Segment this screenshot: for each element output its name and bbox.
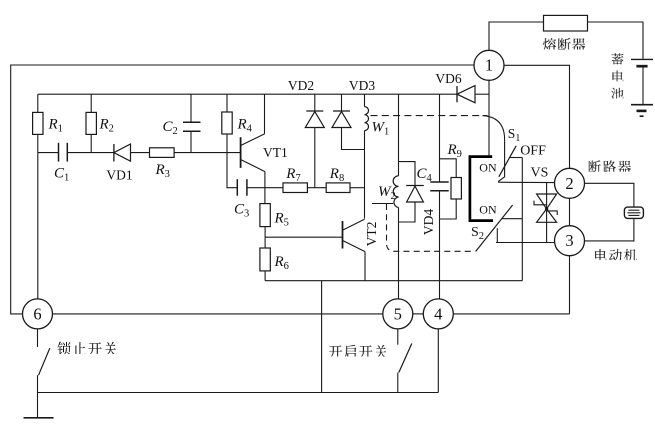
wire motor to node3 bbox=[585, 218, 634, 241]
transistor VT1 bbox=[241, 94, 265, 188]
label R7 bbox=[285, 166, 300, 184]
wire RC trigger line C1-VD1 segment bbox=[67, 152, 114, 154]
svg-text:VS: VS bbox=[531, 166, 549, 181]
label ON (S1) bbox=[479, 161, 497, 175]
node 2 bbox=[555, 168, 585, 198]
label W2 bbox=[378, 184, 396, 202]
resistor R2 bbox=[86, 94, 96, 152]
wire S1 OFF contact stub bbox=[510, 157, 523, 159]
svg-text:ON: ON bbox=[479, 161, 497, 175]
resistor R7 bbox=[283, 183, 307, 193]
inductor W1 (relay coil 1) bbox=[365, 94, 369, 218]
label VT1 bbox=[263, 145, 288, 160]
switch lock (锁止开关) bbox=[38, 329, 50, 418]
wire R4 column to C3 bbox=[227, 153, 237, 188]
wire top supply bus bbox=[38, 93, 457, 95]
wire OFF column x522 bbox=[521, 158, 523, 281]
svg-text:2: 2 bbox=[565, 174, 573, 193]
wire S1 common riser (curved) bbox=[483, 116, 505, 182]
svg-text:VD4: VD4 bbox=[421, 209, 436, 235]
label VS bbox=[531, 166, 549, 181]
resistor R9 (parallel with C4) bbox=[440, 159, 462, 219]
resistor R5 bbox=[260, 188, 270, 238]
label R9 bbox=[447, 142, 462, 160]
svg-text:VT2: VT2 bbox=[364, 222, 379, 247]
label C4 bbox=[417, 166, 433, 184]
label R3 bbox=[155, 162, 170, 180]
wire node 5 to node 4 bbox=[413, 313, 424, 315]
wire node1 right to node2 bbox=[504, 65, 570, 168]
label S2 bbox=[471, 225, 484, 242]
wire W2 armature stub bbox=[372, 203, 393, 205]
label 电动机 bbox=[595, 249, 637, 260]
wire S2 upper contact stub bbox=[502, 218, 523, 220]
label 锁止开关 bbox=[57, 341, 116, 353]
dashed relay linkage (W2 to S2) bbox=[387, 204, 476, 251]
label R4 bbox=[237, 117, 253, 135]
switch start (开启开关) bbox=[398, 329, 412, 393]
wire node2-node3 bbox=[569, 198, 571, 225]
svg-text:5: 5 bbox=[394, 304, 402, 323]
transistor VT2 bbox=[343, 219, 366, 281]
motor (starter) bbox=[624, 207, 643, 218]
node 5 bbox=[383, 299, 413, 329]
label 断路器 bbox=[589, 160, 632, 171]
battery ground bbox=[631, 105, 653, 117]
wire outer border (top edge to node 1, left edge to node 6) bbox=[11, 65, 474, 314]
label R5 bbox=[274, 211, 289, 229]
svg-text:VD2: VD2 bbox=[288, 78, 314, 93]
dashed relay linkage (top) bbox=[371, 115, 488, 117]
label R2 bbox=[99, 117, 114, 135]
wire VT2 base line bbox=[265, 236, 342, 238]
wire R1 column down to node 6 bbox=[37, 153, 39, 299]
contact bar (thick bracket S1-ON to S2-ON) bbox=[470, 157, 493, 221]
label C3 bbox=[234, 202, 249, 220]
label VD4 bbox=[421, 209, 436, 235]
svg-text:6: 6 bbox=[33, 304, 41, 323]
capacitor C3 bbox=[237, 179, 247, 196]
wire fuse to battery bbox=[588, 22, 644, 59]
resistor R1 bbox=[33, 94, 43, 152]
wire R3-VT1 base segment bbox=[174, 152, 241, 154]
svg-text:ON: ON bbox=[479, 203, 497, 217]
wire node2 line bbox=[498, 181, 555, 183]
thyristor VS bbox=[534, 182, 557, 242]
label VT2 bbox=[364, 222, 379, 247]
svg-text:VT1: VT1 bbox=[263, 145, 288, 160]
wire riser x321 (lower bus to bottom wire) bbox=[321, 281, 323, 393]
switch S2 blade bbox=[476, 205, 513, 251]
resistor R4 bbox=[222, 94, 232, 152]
label fuse 熔断器 bbox=[543, 38, 586, 50]
label C2 bbox=[163, 119, 178, 137]
capacitor C4 bbox=[430, 94, 448, 299]
capacitor C1 bbox=[59, 143, 68, 162]
wire node1 down to S1 ON contact bbox=[488, 80, 490, 156]
diode VD4 (parallel with W2) bbox=[399, 162, 424, 222]
label R8 bbox=[329, 166, 344, 184]
wire node 4 to node 3 riser bbox=[453, 313, 569, 315]
resistor R3 bbox=[150, 148, 175, 158]
label OFF bbox=[520, 143, 546, 158]
svg-text:VD3: VD3 bbox=[349, 78, 375, 93]
label VD1 bbox=[106, 167, 132, 182]
label ON (S2) bbox=[479, 203, 497, 217]
wire VD1-R3 segment bbox=[131, 152, 150, 154]
label S1 bbox=[508, 126, 521, 144]
label VD3 bbox=[349, 78, 375, 93]
svg-text:VD6: VD6 bbox=[435, 71, 461, 86]
wire node4 down bbox=[437, 329, 439, 393]
wire lower bus y280 bbox=[265, 280, 522, 282]
diode VD6 bbox=[457, 86, 489, 103]
label battery 蓄电池 bbox=[611, 53, 623, 98]
node 1 bbox=[474, 50, 504, 80]
label R6 bbox=[274, 254, 289, 272]
wire emitter node line (C3 to W1 column) bbox=[247, 187, 365, 189]
wire bottom bus bbox=[38, 392, 439, 394]
diode VD3 bbox=[332, 94, 365, 149]
label R1 bbox=[48, 117, 63, 135]
svg-text:VD1: VD1 bbox=[106, 167, 132, 182]
node 6 bbox=[23, 299, 53, 329]
wire node3 line bbox=[496, 242, 555, 244]
wire node bus (6 to 5) bbox=[53, 313, 383, 315]
svg-text:OFF: OFF bbox=[520, 143, 546, 158]
wire node1 to fuse bbox=[489, 22, 544, 50]
battery bbox=[631, 59, 653, 104]
svg-text:1: 1 bbox=[485, 56, 493, 75]
svg-text:4: 4 bbox=[434, 304, 442, 323]
capacitor C2 bbox=[183, 94, 201, 152]
resistor R8 bbox=[326, 183, 350, 193]
label 开启开关 bbox=[329, 345, 386, 357]
diode VD1 bbox=[114, 144, 131, 162]
svg-text:3: 3 bbox=[565, 231, 573, 250]
label VD2 bbox=[288, 78, 314, 93]
wire node3 down to bottom bus riser bbox=[569, 256, 571, 314]
wire RC trigger line C1 left segment bbox=[38, 152, 59, 154]
fuse (rect) bbox=[544, 15, 588, 31]
label C1 bbox=[54, 166, 69, 184]
ground (lock switch) bbox=[24, 417, 54, 419]
node 3 bbox=[555, 226, 585, 256]
label VD6 bbox=[435, 71, 461, 86]
label W1 bbox=[372, 120, 390, 138]
resistor R6 bbox=[260, 237, 270, 281]
switch S1 blade bbox=[499, 146, 516, 177]
node 4 bbox=[423, 299, 453, 329]
diode VD2 bbox=[305, 94, 324, 188]
wire node2 to motor bbox=[585, 183, 634, 207]
inductor W2 (relay coil 2) bbox=[393, 94, 398, 299]
